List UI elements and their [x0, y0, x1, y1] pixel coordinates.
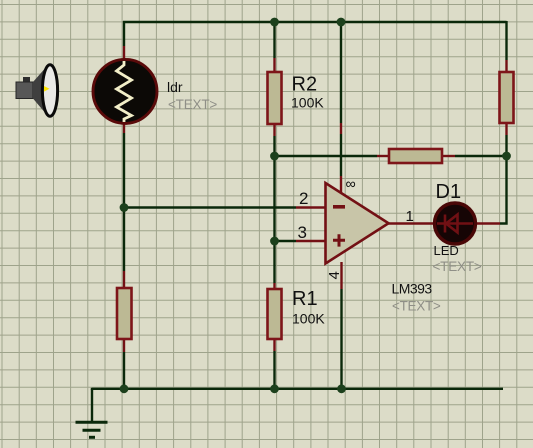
wire op-amp pin 4 to ground rail — [340, 289, 342, 389]
pin number 4 (rotated) — [326, 271, 343, 279]
LDR (light dependent resistor) — [93, 46, 157, 133]
svg-text:100K: 100K — [292, 311, 325, 327]
label LM393 — [392, 281, 433, 297]
junction ground rail / left resistor — [120, 384, 129, 393]
wire R1 bottom to ground rail — [273, 351, 275, 389]
svg-text:LM393: LM393 — [392, 281, 433, 297]
wire right resistor top — [505, 21, 507, 60]
op-amp U1 LM393 — [296, 176, 433, 289]
label ldr — [167, 79, 183, 95]
svg-text:R1: R1 — [292, 288, 318, 310]
svg-text:∞: ∞ — [346, 176, 356, 192]
wire LDR bottom to node A — [123, 133, 125, 271]
wire ground drop — [91, 389, 93, 421]
wire right resistor bottom to LED — [500, 135, 507, 224]
svg-text:2: 2 — [299, 189, 308, 208]
resistor R1 — [268, 283, 282, 351]
wire feedback row left — [275, 155, 378, 157]
resistor left (LDR divider) — [117, 271, 132, 352]
resistor right (LED pull-up) — [500, 60, 514, 135]
junction node B / feedback — [270, 152, 279, 161]
label D1 — [436, 181, 462, 203]
resistor R2 — [268, 58, 282, 136]
wire R2 bottom to node B — [273, 136, 275, 156]
svg-text:D1: D1 — [436, 181, 462, 203]
wire VCC top rail — [123, 21, 507, 23]
svg-text:3: 3 — [298, 223, 307, 242]
label op-amp infinity (pin 8 marker) — [346, 176, 356, 192]
junction feedback / right resistor — [502, 152, 511, 161]
svg-text:<TEXT>: <TEXT> — [168, 97, 217, 112]
wire ground rail — [92, 388, 503, 389]
wire R2 top — [273, 21, 275, 58]
svg-text:R2: R2 — [292, 73, 318, 95]
wire op-amp pin 8 supply — [340, 21, 342, 176]
wire node B to R1 top — [273, 156, 275, 283]
wire node A to op-amp pin 2 — [124, 206, 296, 208]
svg-text:<TEXT>: <TEXT> — [433, 259, 482, 274]
wire left resistor bottom to ground rail — [123, 352, 125, 389]
junction node A / pin 2 — [120, 203, 129, 212]
svg-text:4: 4 — [326, 271, 343, 279]
junction top rail / pin 8 — [337, 18, 346, 27]
light source lamp icon — [16, 65, 58, 117]
svg-text:1: 1 — [406, 208, 414, 225]
pin number 1 — [406, 208, 414, 225]
label R1 value 100K — [292, 311, 325, 327]
label LED TEXT placeholder — [433, 259, 482, 274]
label R2 value 100K — [291, 95, 324, 111]
svg-text:100K: 100K — [291, 95, 324, 111]
pin number 2 — [299, 189, 308, 208]
LED D1 — [435, 203, 501, 244]
label R2 — [292, 73, 318, 95]
label R1 — [292, 288, 318, 310]
svg-text:ldr: ldr — [167, 79, 183, 95]
junction ground rail / pin 4 — [337, 384, 346, 393]
junction top rail / R2 — [270, 18, 279, 27]
label ldr TEXT placeholder — [168, 97, 217, 112]
junction ground rail / R1 — [270, 384, 279, 393]
pin number 3 — [298, 223, 307, 242]
wire LDR top — [123, 21, 125, 46]
label LM393 TEXT placeholder — [392, 299, 441, 314]
junction node B / pin 3 — [270, 237, 279, 246]
label LED — [434, 243, 459, 258]
svg-text:<TEXT>: <TEXT> — [392, 299, 441, 314]
ground — [76, 422, 108, 437]
wire node B to op-amp pin 3 — [275, 240, 297, 242]
svg-text:LED: LED — [434, 243, 459, 258]
resistor feedback (horizontal) — [377, 149, 455, 163]
wire feedback row right — [455, 155, 507, 157]
